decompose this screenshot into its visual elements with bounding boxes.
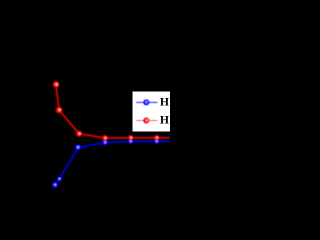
legend entry 1 sample line (blue)	[136, 101, 157, 103]
legend entry 2 sample line (red)	[136, 120, 157, 122]
node B4: blue marker	[102, 140, 108, 146]
wire: red data curve polyline	[56, 85, 170, 139]
node B6: blue marker	[154, 139, 159, 144]
node R1: red marker	[53, 81, 60, 88]
node R3: red marker	[76, 131, 82, 137]
node R6: red marker	[154, 135, 159, 140]
node B1: blue marker	[52, 182, 58, 188]
node B5: blue marker	[128, 139, 133, 144]
legend entry 2 marker (red ball)	[143, 118, 149, 124]
svg-text:H: H	[160, 114, 169, 127]
node B3: blue marker	[75, 144, 81, 150]
svg-text:H: H	[160, 95, 169, 108]
node R5: red marker	[128, 135, 133, 140]
node R4: red marker	[102, 135, 108, 141]
node R2: red marker	[56, 107, 63, 114]
legend box	[133, 92, 173, 132]
node B2: blue marker	[57, 176, 62, 181]
legend entry 1 marker (blue ball)	[143, 99, 149, 105]
wire: blue data curve polyline	[55, 141, 170, 185]
